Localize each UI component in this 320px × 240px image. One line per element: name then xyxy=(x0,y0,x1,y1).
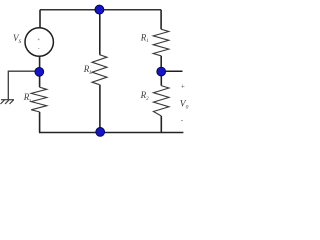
svg-text:RL: RL xyxy=(83,64,93,76)
wire bottom rail xyxy=(39,132,183,134)
ground xyxy=(1,100,15,104)
wire top rail to resistor R1 xyxy=(160,10,162,30)
svg-text:VS: VS xyxy=(13,33,22,45)
wire source bottom lead xyxy=(39,56,41,69)
svg-text:-: - xyxy=(38,45,40,51)
svg-text:Rs: Rs xyxy=(23,92,32,104)
resistor Rs xyxy=(31,87,47,112)
resistor R2 xyxy=(153,86,169,116)
svg-text:R2: R2 xyxy=(140,90,150,102)
node A (top) xyxy=(95,5,104,14)
svg-text:-: - xyxy=(181,116,184,124)
wire output stub xyxy=(166,70,183,72)
wire R1 to node D xyxy=(160,56,162,69)
wire node A to resistor RL xyxy=(99,10,101,55)
svg-text:+: + xyxy=(37,37,40,43)
wire node D to resistor R2 xyxy=(160,76,162,86)
wire ground branch xyxy=(8,71,36,99)
wire RL to bottom node xyxy=(99,85,101,132)
svg-text:R1: R1 xyxy=(140,32,149,44)
svg-text:+: + xyxy=(181,82,185,90)
node D (output tap) xyxy=(157,67,166,76)
wire top rail xyxy=(40,9,161,11)
wire R2 to bottom rail xyxy=(160,116,162,132)
node C (bottom) xyxy=(96,127,105,136)
voltage source Vs xyxy=(25,28,53,56)
wire node B to resistor Rs xyxy=(39,76,41,87)
resistor R1 xyxy=(153,29,169,56)
svg-text:V0: V0 xyxy=(180,100,189,111)
wire source top lead xyxy=(39,10,41,28)
node B (left, source negative) xyxy=(35,67,44,76)
resistor RL (middle branch) xyxy=(92,55,107,85)
wire Rs to bottom rail xyxy=(39,112,41,132)
